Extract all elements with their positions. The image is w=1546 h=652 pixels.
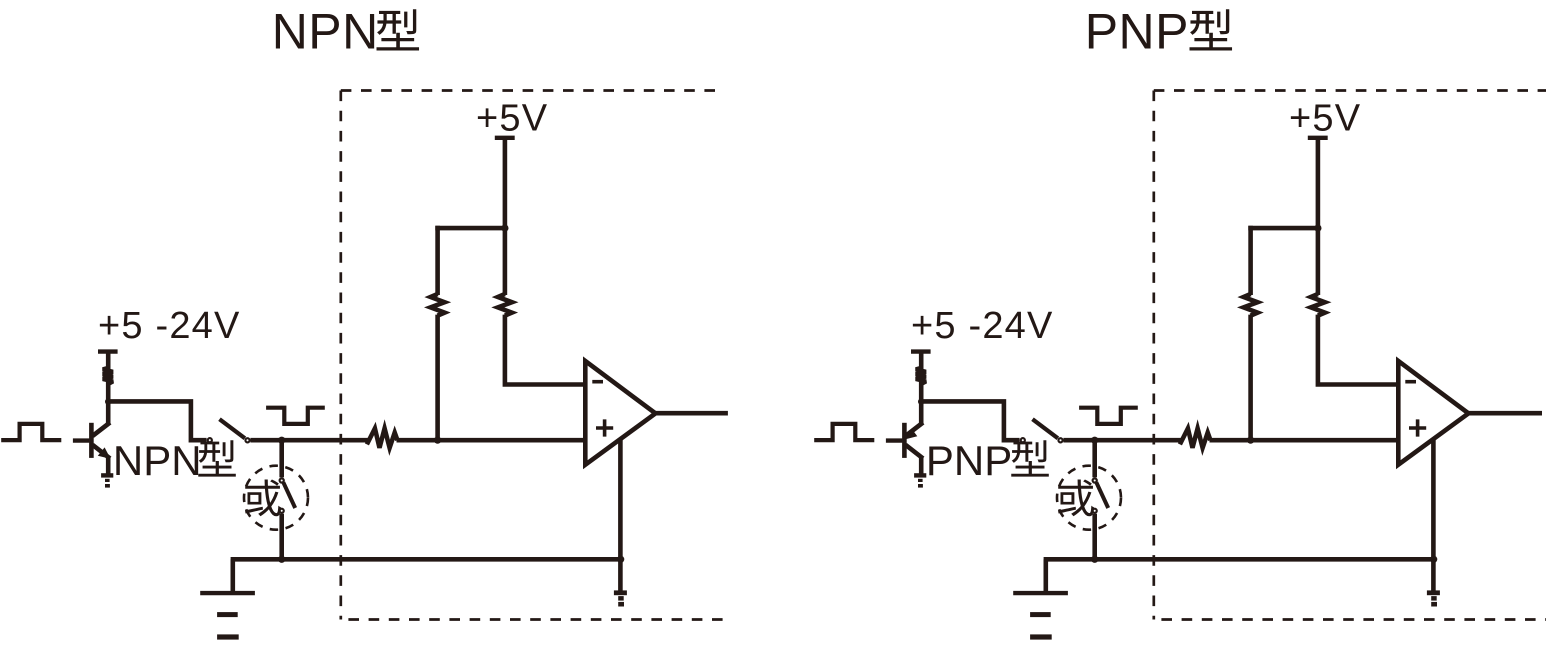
wire: resistor R4 to collector node [106, 382, 111, 404]
node: transistor collector junction [918, 398, 924, 404]
ground (small) tick 3 at transistor [918, 484, 923, 488]
svg-text:+5V: +5V [476, 98, 548, 140]
resistor R1 (pull-up, vertical zigzag) [1244, 294, 1258, 316]
switch SW2 blade [1096, 482, 1108, 508]
op-amp U1 non-inverting input label + [596, 419, 613, 436]
resistor R3 (series input, horizontal zigzag) [367, 428, 398, 447]
driver box dashed border left (PNP side) [1152, 91, 1155, 620]
transistor Q1 base bar [89, 423, 94, 458]
ground symbol bar 1 [1013, 591, 1068, 595]
svg-text:NPN: NPN [113, 437, 202, 484]
driver box dashed border top (PNP side) [1154, 89, 1546, 92]
wire: upper lead of resistor R2 [503, 228, 508, 295]
wire: branch to left pull-up resistor [435, 226, 505, 231]
switch SW2 top contact [1093, 478, 1097, 482]
ground (small) tick 2 at transistor [918, 479, 923, 482]
wire: switch SW2 to ground rail [1092, 514, 1097, 560]
ground (small) tick 3 [1431, 602, 1437, 607]
resistor R3 (series input, horizontal zigzag) [1180, 428, 1211, 447]
wire: +5V down to node [503, 138, 508, 231]
wire: resistor R4 to collector node [919, 382, 924, 404]
transistor Q2 emitter arrow (PNP, pointing in) [906, 429, 918, 440]
inverted pulse waveform symbol [266, 408, 325, 424]
node: resistor branch junction [501, 225, 508, 232]
ground (small) tick 2 at transistor [105, 479, 110, 482]
svg-text:PNP: PNP [926, 437, 1012, 484]
wire: upper lead of resistor R2 [1316, 228, 1321, 295]
wire: comparator ground stub [1431, 559, 1436, 592]
label 或 (or) [1058, 479, 1094, 516]
switch SW2 blade [283, 482, 295, 508]
wire: +5V down to node [1316, 138, 1321, 231]
wire: resistor R3 to comparator non-inverting input [1210, 438, 1399, 443]
transistor Q1 emitter stroke [906, 445, 924, 459]
ground symbol bar 2 [1030, 612, 1051, 617]
wire: ground rail [231, 557, 621, 562]
svg-text:+5V: +5V [1289, 98, 1361, 140]
resistor R1 (pull-up, vertical zigzag) [431, 294, 445, 316]
wire: supply to resistor R4 [106, 352, 111, 370]
inverted pulse waveform symbol [1079, 408, 1138, 424]
dashed circle (alternative marker) [244, 466, 308, 530]
wire: resistor R2 down to comparator inverting input [505, 315, 585, 385]
svg-text:+5 -24V: +5 -24V [911, 305, 1054, 347]
op-amp U1 comparator triangle [1398, 361, 1468, 465]
transistor Q1 emitter arrow (NPN, pointing out) [98, 447, 111, 459]
resistor R4 (collector pull, small vertical zigzag) [103, 368, 113, 384]
driver box dashed border top (NPN side) [341, 89, 718, 92]
resistor R2 (reference divider, vertical zigzag) [1311, 294, 1325, 316]
op-amp U1 inverting input label - [592, 380, 603, 384]
node: SW2 branch on input net [1091, 437, 1098, 444]
wire: collector node to switch SW1 [921, 401, 1019, 440]
svg-text:NPN: NPN [272, 3, 379, 59]
wire: supply to resistor R4 [919, 352, 924, 370]
wire: comparator lower edge to ground rail [618, 439, 623, 559]
resistor R2 (reference divider, vertical zigzag) [498, 294, 512, 316]
+5V supply terminal bar [1308, 136, 1328, 140]
svg-text:PNP: PNP [1085, 3, 1189, 59]
op-amp U1 inverting input label - [1405, 380, 1416, 384]
transistor Q1 emitter stroke [93, 445, 111, 459]
node: R1 joins input net [434, 437, 441, 444]
input pulse waveform symbol [1, 424, 61, 440]
switch SW1 blade [220, 419, 245, 438]
svg-text:+5 -24V: +5 -24V [98, 305, 241, 347]
ground (small) tick 2 [1431, 596, 1437, 601]
switch SW1 right contact [1058, 438, 1062, 442]
wire: comparator output [1467, 411, 1542, 416]
node: resistor branch junction [1314, 225, 1321, 232]
wire: collector node to switch SW1 [108, 401, 206, 440]
ground (small) bar at transistor [914, 473, 926, 477]
node: transistor collector junction [105, 398, 111, 404]
wire: resistor R3 to comparator non-inverting input [397, 438, 586, 443]
wire: lower lead of resistor R1 to input net [1248, 315, 1253, 441]
switch SW1 left contact [208, 438, 212, 442]
switch SW1 blade [1033, 419, 1058, 438]
wire: ground rail drop [231, 559, 236, 593]
wire: switch SW2 to ground rail [279, 514, 284, 560]
ground (small) bar at transistor [101, 473, 113, 477]
switch SW2 top contact [280, 478, 284, 482]
+5V supply terminal bar [495, 136, 515, 140]
transistor Q1 collector stroke [906, 423, 924, 437]
label 或 (or) [245, 479, 281, 516]
resistor R4 (collector pull, small vertical zigzag) [916, 368, 926, 384]
ground (small) tick 2 [618, 596, 624, 601]
wire: transistor lower lead down [106, 457, 111, 474]
+5 -24V supply terminal bar [911, 349, 931, 353]
ground (small) tick 3 at transistor [105, 484, 110, 488]
wire: upper lead of resistor R1 [435, 226, 440, 295]
node: R1 joins input net [1247, 437, 1254, 444]
op-amp U1 comparator triangle [585, 361, 655, 465]
wire: branch to left pull-up resistor [1248, 226, 1318, 231]
ground symbol bar 2 [217, 612, 238, 617]
ground (small) bar under comparator [1427, 590, 1440, 595]
wire: comparator lower edge to ground rail [1431, 439, 1436, 559]
wire: comparator ground stub [618, 559, 623, 592]
+5 -24V supply terminal bar [98, 349, 118, 353]
ground symbol bar 3 [217, 634, 239, 639]
transistor Q1 base lead (PNP) [886, 438, 903, 442]
node: ground rail under comparator [1430, 556, 1437, 563]
wire: switch to series resistor R3 [1063, 438, 1181, 443]
wire: ground rail [1044, 557, 1434, 562]
switch SW2 bottom contact [1093, 509, 1097, 513]
wire: switch to series resistor R3 [250, 438, 368, 443]
input pulse waveform symbol [814, 424, 874, 440]
node: SW2 branch on input net [278, 437, 285, 444]
switch SW2 bottom contact [280, 509, 284, 513]
wire: comparator output [654, 411, 728, 416]
node: ground rail under comparator [617, 556, 624, 563]
wire: transistor lower lead down [919, 457, 924, 474]
op-amp U1 non-inverting input label + [1409, 419, 1426, 436]
transistor Q1 base lead (NPN) [73, 438, 90, 442]
wire: input net down to switch SW2 [1092, 440, 1097, 477]
wire: transistor upper lead up to collector node [106, 401, 111, 423]
switch SW1 right contact [245, 438, 249, 442]
ground (small) bar under comparator [614, 590, 627, 595]
wire: transistor upper lead up to collector node [919, 401, 924, 423]
dashed circle (alternative marker) [1057, 466, 1121, 530]
switch SW1 left contact [1021, 438, 1025, 442]
node: SW2 joins ground rail [278, 556, 285, 563]
ground (small) tick 3 [618, 602, 624, 607]
transistor Q1 base bar [902, 423, 907, 458]
ground symbol bar 1 [200, 591, 255, 595]
wire: ground rail drop [1044, 559, 1049, 593]
wire: input net down to switch SW2 [279, 440, 284, 477]
driver box dashed border bottom (PNP side) [1161, 618, 1546, 621]
driver box dashed border bottom (NPN side) [348, 618, 726, 621]
ground symbol bar 3 [1030, 634, 1052, 639]
wire: upper lead of resistor R1 [1248, 226, 1253, 295]
node: SW2 joins ground rail [1091, 556, 1098, 563]
transistor Q1 collector stroke [93, 423, 111, 437]
wire: lower lead of resistor R1 to input net [435, 315, 440, 441]
driver box dashed border left (NPN side) [339, 91, 342, 620]
wire: resistor R2 down to comparator inverting input [1318, 315, 1398, 385]
